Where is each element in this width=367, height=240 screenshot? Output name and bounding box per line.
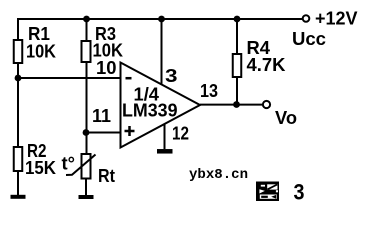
svg-text:13: 13 (200, 81, 218, 101)
node A junction dot (R1/R2 divider) (15, 75, 22, 82)
wire R2 bottom to ground (17, 171, 19, 195)
svg-text:10K: 10K (26, 42, 56, 62)
svg-text:LM339: LM339 (122, 101, 178, 121)
svg-text:15K: 15K (25, 158, 56, 178)
thermistor Rt body (82, 154, 91, 179)
wire R1 bottom to node A (17, 63, 19, 147)
svg-text:4.7K: 4.7K (247, 55, 286, 75)
svg-text:Vo: Vo (275, 108, 297, 128)
svg-text:10: 10 (96, 58, 117, 78)
wire pin 12 to ground (164, 124, 166, 149)
resistor R4 (233, 54, 242, 77)
svg-text:12: 12 (172, 124, 189, 144)
resistor R2 (14, 147, 23, 171)
svg-text:+12V: +12V (315, 9, 358, 29)
wire R3 bottom crossing over to node B (86, 62, 88, 154)
junction dot top rail / R3 branch (83, 16, 90, 23)
wire top rail to R3 (86, 19, 88, 41)
op-amp U1 comparator 1/4 LM339 triangle (121, 63, 201, 148)
junction dot top rail / R4 (234, 16, 241, 23)
svg-text:Rt: Rt (98, 166, 115, 186)
wire Rt bottom to ground (85, 179, 87, 196)
svg-text:t°: t° (62, 154, 76, 174)
wire left rail upper segment (17, 18, 19, 41)
thermistor Rt diagonal stroke (66, 155, 96, 176)
wire pin 3 supply to op-amp (161, 19, 163, 85)
svg-text:ybx8.cn: ybx8.cn (189, 167, 248, 183)
figure caption icon (Chinese character tu enclosed box) (256, 182, 279, 202)
wire output pin 13 to Vo (200, 104, 263, 106)
svg-text:3: 3 (294, 180, 305, 205)
node output junction dot (233, 101, 240, 108)
resistor R3 (82, 41, 91, 62)
svg-text:11: 11 (92, 106, 111, 126)
terminal +12V open circle (303, 15, 310, 22)
ground (left, below R2) (11, 195, 26, 199)
wire R4 bottom to output node (236, 77, 238, 105)
wire top rail to R4 (236, 19, 238, 54)
wire node A to inverting input pin 10 (18, 77, 120, 79)
inverting input minus sign (126, 77, 132, 80)
wire top +12V rail (17, 18, 303, 20)
node B junction dot (R3/Rt divider) (83, 129, 90, 136)
svg-text:3: 3 (165, 66, 178, 86)
ground (pin 12) (157, 149, 173, 154)
ground (below Rt) (79, 195, 94, 199)
resistor R1 (14, 40, 23, 63)
non-inverting input plus sign (125, 126, 135, 136)
junction dot top rail / pin 3 (158, 16, 165, 23)
terminal Vo open circle (263, 101, 270, 108)
wire node B to non-inverting input pin 11 (86, 132, 120, 134)
svg-text:Ucc: Ucc (292, 29, 326, 49)
